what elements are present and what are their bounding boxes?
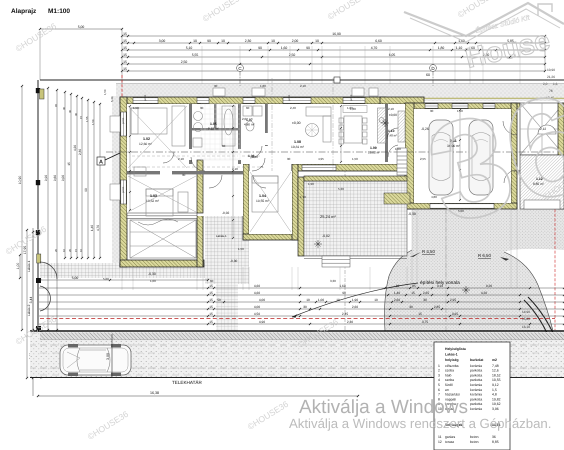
svg-text:85: 85 bbox=[412, 284, 416, 288]
axis markers bbox=[237, 65, 244, 72]
svg-text:parketta: parketta bbox=[470, 402, 482, 406]
svg-text:36: 36 bbox=[492, 435, 496, 439]
svg-text:1,00: 1,00 bbox=[395, 147, 401, 151]
svg-text:2,85: 2,85 bbox=[434, 305, 440, 309]
svg-text:2,10: 2,10 bbox=[388, 107, 394, 111]
extension lines below house bbox=[121, 267, 123, 290]
svg-text:9,12 m²: 9,12 m² bbox=[208, 127, 219, 131]
svg-text:90: 90 bbox=[306, 46, 310, 50]
svg-text:16,10: 16,10 bbox=[522, 325, 530, 329]
svg-text:1,10: 1,10 bbox=[252, 155, 258, 159]
svg-text:1.05: 1.05 bbox=[210, 122, 217, 126]
svg-text:2,45: 2,45 bbox=[342, 312, 348, 316]
svg-text:garázs: garázs bbox=[445, 435, 455, 439]
svg-text:4,60: 4,60 bbox=[254, 284, 260, 288]
svg-text:helyiség: helyiség bbox=[445, 358, 459, 362]
svg-text:20: 20 bbox=[54, 248, 58, 252]
svg-text:1,90: 1,90 bbox=[308, 182, 314, 186]
svg-text:1.08: 1.08 bbox=[294, 140, 301, 144]
sidewalk band to gate bbox=[40, 263, 249, 278]
svg-text:10,55 m²: 10,55 m² bbox=[256, 199, 270, 203]
svg-text:1,00: 1,00 bbox=[16, 263, 20, 270]
svg-text:90: 90 bbox=[200, 106, 204, 110]
svg-text:parketta: parketta bbox=[470, 378, 482, 382]
svg-text:1,5: 1,5 bbox=[492, 388, 497, 392]
svg-text:1,60: 1,60 bbox=[339, 284, 345, 288]
svg-text:20: 20 bbox=[68, 248, 72, 252]
svg-text:3: 3 bbox=[438, 373, 440, 377]
svg-text:15: 15 bbox=[418, 312, 422, 316]
svg-text:30: 30 bbox=[68, 109, 72, 113]
svg-text:5,10: 5,10 bbox=[186, 46, 193, 50]
svg-text:6,05: 6,05 bbox=[389, 53, 396, 57]
svg-text:5: 5 bbox=[438, 383, 440, 387]
svg-text:15: 15 bbox=[209, 320, 213, 324]
bathroom 1.05 tub bbox=[222, 106, 235, 146]
svg-text:15: 15 bbox=[209, 298, 213, 302]
svg-text:60: 60 bbox=[210, 279, 214, 283]
svg-text:4,90: 4,90 bbox=[259, 320, 265, 324]
terrace door band bbox=[302, 165, 336, 171]
windows bbox=[133, 98, 158, 103]
terrace 25.24 bbox=[298, 177, 304, 256]
svg-text:15: 15 bbox=[411, 291, 415, 295]
section line A-A bbox=[106, 151, 556, 153]
driveway curve R6.50 bbox=[504, 252, 553, 331]
svg-text:2,50: 2,50 bbox=[289, 53, 296, 57]
svg-text:11: 11 bbox=[438, 435, 442, 439]
svg-text:2,50: 2,50 bbox=[181, 60, 188, 64]
steps by garage wall bbox=[384, 193, 410, 204]
svg-text:1.04: 1.04 bbox=[259, 194, 266, 198]
svg-text:6: 6 bbox=[438, 388, 440, 392]
room 1.03 diagonals bbox=[128, 176, 196, 212]
svg-text:60: 60 bbox=[222, 144, 226, 148]
driveway heavy edge curve bbox=[524, 300, 552, 345]
entry steps bbox=[397, 148, 407, 175]
svg-text:fürdő: fürdő bbox=[445, 383, 453, 387]
extension lines to house bbox=[201, 46, 203, 84]
svg-text:10: 10 bbox=[193, 39, 197, 43]
svg-text:2,10: 2,10 bbox=[300, 84, 306, 88]
svg-text:18,52: 18,52 bbox=[492, 373, 501, 377]
svg-text:pm90: pm90 bbox=[350, 94, 353, 101]
svg-text:Aktiválja a Windows rendszert: Aktiválja a Windows rendszert a Gépházba… bbox=[289, 416, 551, 431]
svg-text:50: 50 bbox=[217, 298, 221, 302]
svg-text:Lakás-1: Lakás-1 bbox=[27, 260, 31, 272]
svg-text:1: 1 bbox=[438, 364, 440, 368]
terrace 1.12 bbox=[520, 155, 564, 209]
svg-text:10: 10 bbox=[62, 248, 66, 252]
bed room 1.02 bbox=[131, 108, 167, 134]
svg-text:25,24 m²: 25,24 m² bbox=[320, 214, 336, 219]
driveway curve R4.50 bbox=[385, 250, 413, 331]
svg-text:15: 15 bbox=[209, 291, 213, 295]
svg-text:1,80: 1,80 bbox=[347, 106, 353, 110]
interior walls bbox=[197, 160, 203, 213]
svg-text:4,80: 4,80 bbox=[431, 195, 437, 199]
svg-text:1,55: 1,55 bbox=[85, 116, 89, 122]
svg-text:1.02: 1.02 bbox=[143, 137, 150, 141]
svg-text:15: 15 bbox=[209, 305, 213, 309]
bottom dimension rows bbox=[39, 287, 564, 289]
kitchen top counter bbox=[343, 106, 367, 113]
svg-text:7,48: 7,48 bbox=[492, 364, 499, 368]
svg-text:3,30: 3,30 bbox=[330, 279, 336, 283]
svg-text:4,8: 4,8 bbox=[492, 393, 497, 397]
dim stack connectors bbox=[40, 29, 545, 84]
svg-text:2,10: 2,10 bbox=[178, 157, 184, 161]
svg-text:parketta: parketta bbox=[470, 397, 482, 401]
svg-text:9,00: 9,00 bbox=[61, 175, 65, 181]
svg-text:90: 90 bbox=[214, 84, 218, 88]
svg-text:15: 15 bbox=[67, 162, 71, 166]
svg-text:15: 15 bbox=[209, 284, 213, 288]
svg-text:3,44: 3,44 bbox=[29, 297, 33, 304]
walkway grid strip to street bbox=[205, 209, 249, 284]
svg-text:4,20: 4,20 bbox=[481, 291, 487, 295]
svg-text:1,10: 1,10 bbox=[456, 46, 463, 50]
svg-text:2,30: 2,30 bbox=[347, 320, 353, 324]
svg-text:1,40: 1,40 bbox=[90, 225, 94, 231]
svg-text:Lakás-1: Lakás-1 bbox=[445, 353, 458, 357]
room 1.02 diagonals bbox=[128, 106, 187, 168]
svg-text:19,62: 19,62 bbox=[492, 402, 501, 406]
svg-text:10: 10 bbox=[221, 39, 225, 43]
svg-text:5,00: 5,00 bbox=[78, 25, 85, 29]
svg-text:90: 90 bbox=[207, 39, 211, 43]
svg-text:3,96: 3,96 bbox=[492, 407, 499, 411]
svg-text:2,60: 2,60 bbox=[394, 298, 400, 302]
svg-text:5,00: 5,00 bbox=[72, 276, 79, 280]
svg-text:10: 10 bbox=[79, 248, 83, 252]
kitchen 1.09 bbox=[378, 108, 386, 143]
svg-text:kerámia: kerámia bbox=[470, 383, 482, 387]
svg-text:±0,00: ±0,00 bbox=[292, 121, 301, 125]
svg-text:pm90: pm90 bbox=[288, 94, 291, 101]
svg-text:1,40: 1,40 bbox=[394, 291, 400, 295]
svg-text:3,00: 3,00 bbox=[159, 39, 166, 43]
svg-text:3,65: 3,65 bbox=[452, 312, 458, 316]
svg-text:pm90: pm90 bbox=[144, 94, 147, 101]
svg-text:7: 7 bbox=[438, 393, 440, 397]
svg-text:1,80: 1,80 bbox=[438, 46, 445, 50]
svg-text:kerámia: kerámia bbox=[470, 407, 482, 411]
svg-text:Aktiválja a Windows: Aktiválja a Windows bbox=[299, 397, 468, 418]
room list table bbox=[434, 342, 510, 450]
svg-text:Lakás-1: Lakás-1 bbox=[216, 234, 227, 238]
svg-text:19,82: 19,82 bbox=[492, 397, 501, 401]
svg-text:előszoba: előszoba bbox=[445, 364, 459, 368]
terrace steps bbox=[322, 256, 350, 267]
svg-text:4,00: 4,00 bbox=[254, 305, 260, 309]
svg-text:30: 30 bbox=[303, 305, 307, 309]
svg-text:8,85: 8,85 bbox=[492, 440, 499, 444]
svg-text:14,90: 14,90 bbox=[522, 310, 530, 314]
svg-text:15: 15 bbox=[123, 32, 127, 36]
svg-text:3,00: 3,00 bbox=[106, 353, 110, 360]
svg-text:Alaprajz: Alaprajz bbox=[11, 8, 37, 15]
svg-text:90: 90 bbox=[342, 291, 346, 295]
svg-text:30: 30 bbox=[74, 112, 78, 116]
svg-text:háztartási: háztartási bbox=[445, 393, 460, 397]
svg-text:18,52 m²: 18,52 m² bbox=[146, 199, 160, 203]
section marker A bbox=[97, 157, 105, 165]
svg-text:beton: beton bbox=[470, 435, 479, 439]
nappali sofa bbox=[306, 107, 331, 116]
svg-text:4,60: 4,60 bbox=[254, 291, 260, 295]
room 1.04 bed bbox=[252, 176, 278, 212]
svg-text:2,65: 2,65 bbox=[423, 291, 429, 295]
svg-text:15: 15 bbox=[74, 248, 78, 252]
svg-text:1,70: 1,70 bbox=[300, 195, 306, 199]
svg-text:19,81 m²: 19,81 m² bbox=[291, 145, 305, 149]
svg-text:A: A bbox=[99, 160, 103, 166]
svg-text:60: 60 bbox=[426, 73, 430, 77]
svg-text:2,30: 2,30 bbox=[78, 149, 82, 155]
svg-text:4,00: 4,00 bbox=[259, 298, 265, 302]
svg-text:szoba: szoba bbox=[445, 369, 454, 373]
svg-text:4,80 m²: 4,80 m² bbox=[244, 123, 255, 127]
svg-text:75: 75 bbox=[260, 165, 264, 169]
dining table bbox=[344, 116, 362, 143]
svg-text:90: 90 bbox=[287, 157, 291, 161]
house outer walls bbox=[120, 97, 386, 104]
svg-text:3,75: 3,75 bbox=[422, 320, 428, 324]
wall top insulation line bbox=[120, 97, 564, 99]
svg-text:10: 10 bbox=[306, 298, 310, 302]
room 1.03 wardrobe bbox=[134, 167, 146, 176]
svg-text:15: 15 bbox=[123, 67, 127, 71]
lot left boundary bbox=[37, 80, 39, 378]
yard gravel band around house bbox=[116, 83, 564, 101]
svg-text:4,20: 4,20 bbox=[73, 145, 77, 151]
left vertical dimension lines bbox=[47, 88, 49, 330]
svg-text:1,50: 1,50 bbox=[352, 157, 358, 161]
car 2 bbox=[469, 120, 493, 195]
pergola right wall strip bbox=[558, 103, 564, 209]
right pergola bbox=[520, 103, 564, 155]
street lane dashes bbox=[40, 345, 560, 375]
svg-text:4: 4 bbox=[438, 378, 440, 382]
svg-text:9,90: 9,90 bbox=[44, 175, 48, 181]
svg-text:1,90: 1,90 bbox=[352, 298, 358, 302]
svg-text:1.09: 1.09 bbox=[370, 146, 377, 150]
svg-text:2,60: 2,60 bbox=[352, 305, 358, 309]
svg-text:15: 15 bbox=[209, 312, 213, 316]
svg-text:R 4,50: R 4,50 bbox=[422, 249, 435, 254]
svg-text:15: 15 bbox=[123, 53, 127, 57]
svg-text:1,00: 1,00 bbox=[150, 279, 156, 283]
axis dashline in driveway bbox=[445, 209, 447, 331]
svg-text:30: 30 bbox=[423, 298, 427, 302]
svg-text:-0,02: -0,02 bbox=[222, 211, 229, 215]
svg-text:terasz: terasz bbox=[445, 440, 455, 444]
door gaps bbox=[160, 171, 172, 175]
svg-text:1,50: 1,50 bbox=[103, 89, 107, 95]
svg-text:2,30: 2,30 bbox=[245, 39, 252, 43]
svg-text:10,90: 10,90 bbox=[18, 176, 22, 185]
svg-text:5,00: 5,00 bbox=[103, 277, 109, 281]
fence posts bbox=[36, 88, 40, 93]
entrance 1.10 bbox=[398, 111, 405, 142]
svg-text:±0,00: ±0,00 bbox=[389, 113, 397, 117]
car 1 bbox=[429, 120, 453, 195]
svg-text:6,60: 6,60 bbox=[375, 39, 382, 43]
lot top boundary bbox=[40, 79, 564, 81]
svg-text:2: 2 bbox=[438, 369, 440, 373]
street band bbox=[30, 332, 564, 377]
bottom dim 16.38 bbox=[38, 395, 358, 397]
svg-text:90: 90 bbox=[182, 173, 186, 177]
red building envelope line bbox=[121, 75, 123, 97]
gate arcs bbox=[40, 262, 57, 279]
svg-text:10: 10 bbox=[374, 298, 378, 302]
svg-text:15: 15 bbox=[123, 39, 127, 43]
svg-text:4,50: 4,50 bbox=[254, 312, 260, 316]
svg-text:4,70: 4,70 bbox=[371, 46, 378, 50]
svg-text:építési hely vonala: építési hely vonala bbox=[420, 280, 460, 286]
svg-text:16,90: 16,90 bbox=[332, 32, 341, 36]
svg-text:TELEKHATÁR: TELEKHATÁR bbox=[172, 380, 202, 385]
svg-text:2,95: 2,95 bbox=[450, 298, 456, 302]
svg-text:4,70: 4,70 bbox=[96, 225, 100, 231]
svg-text:kerámia: kerámia bbox=[470, 364, 482, 368]
room 1.07 fixtures bbox=[243, 106, 252, 116]
svg-text:háló: háló bbox=[445, 373, 452, 377]
door arcs bbox=[191, 157, 205, 171]
svg-text:4,95: 4,95 bbox=[318, 157, 324, 161]
svg-text:parketta: parketta bbox=[470, 369, 482, 373]
svg-text:19,62 m²: 19,62 m² bbox=[368, 151, 380, 155]
svg-text:7,48 m²: 7,48 m² bbox=[387, 134, 397, 138]
svg-text:9,12: 9,12 bbox=[492, 383, 499, 387]
bathroom tiles bbox=[201, 104, 240, 160]
svg-text:10: 10 bbox=[271, 39, 275, 43]
band window boxes bbox=[213, 88, 225, 96]
svg-text:15: 15 bbox=[123, 46, 127, 50]
house interior bbox=[127, 104, 405, 164]
svg-text:2,55: 2,55 bbox=[420, 157, 426, 161]
svg-text:12: 12 bbox=[438, 440, 442, 444]
svg-text:5,55: 5,55 bbox=[192, 53, 199, 57]
svg-text:-0,02: -0,02 bbox=[322, 234, 330, 238]
svg-text:15: 15 bbox=[123, 60, 127, 64]
svg-text:m2: m2 bbox=[492, 358, 497, 362]
svg-text:10: 10 bbox=[315, 39, 319, 43]
svg-text:2,07: 2,07 bbox=[242, 117, 248, 121]
svg-text:1,50: 1,50 bbox=[238, 247, 244, 251]
svg-text:pm90: pm90 bbox=[122, 117, 125, 124]
svg-text:R 6,50: R 6,50 bbox=[478, 253, 491, 258]
axis lines bbox=[272, 78, 333, 171]
svg-text:12,6: 12,6 bbox=[492, 369, 499, 373]
top dimension rows bbox=[40, 28, 122, 30]
svg-text:1,60: 1,60 bbox=[281, 46, 288, 50]
svg-text:1,00: 1,00 bbox=[318, 298, 324, 302]
svg-text:30: 30 bbox=[62, 106, 66, 110]
svg-text:-0,30: -0,30 bbox=[148, 272, 156, 276]
svg-text:16,38: 16,38 bbox=[150, 391, 159, 395]
svg-text:Lakás-2: Lakás-2 bbox=[27, 304, 31, 316]
svg-text:parketta: parketta bbox=[470, 373, 482, 377]
svg-text:1,80: 1,80 bbox=[260, 84, 266, 88]
svg-text:9,20: 9,20 bbox=[486, 284, 492, 288]
svg-text:30: 30 bbox=[409, 305, 413, 309]
marker crosses bbox=[314, 240, 322, 248]
svg-text:15: 15 bbox=[79, 115, 83, 119]
svg-text:wc: wc bbox=[445, 388, 449, 392]
driveway gray area bbox=[385, 209, 564, 331]
watermark logo HOUSE36 bbox=[404, 3, 564, 254]
svg-text:M1:100: M1:100 bbox=[48, 8, 70, 15]
svg-text:-0,30: -0,30 bbox=[230, 259, 237, 263]
svg-text:15,80: 15,80 bbox=[522, 317, 530, 321]
svg-text:90: 90 bbox=[258, 46, 262, 50]
terrace Lakas-1 deck bbox=[130, 220, 196, 258]
room 1.03 bed bbox=[146, 189, 173, 216]
svg-text:60: 60 bbox=[246, 106, 250, 110]
interior dim chains bbox=[232, 106, 234, 238]
svg-text:kerámia: kerámia bbox=[470, 393, 482, 397]
svg-text:5,30: 5,30 bbox=[110, 96, 114, 102]
svg-text:90: 90 bbox=[84, 188, 88, 192]
svg-text:1,50: 1,50 bbox=[133, 106, 139, 110]
svg-text:beton: beton bbox=[470, 440, 479, 444]
svg-text:9,60: 9,60 bbox=[53, 175, 57, 181]
svg-text:2,40: 2,40 bbox=[290, 106, 296, 110]
svg-text:pm90: pm90 bbox=[122, 186, 125, 193]
svg-text:szoba: szoba bbox=[445, 378, 454, 382]
svg-text:Helyiséglista: Helyiséglista bbox=[445, 347, 466, 351]
svg-text:2,00: 2,00 bbox=[292, 39, 299, 43]
svg-text:burkolat: burkolat bbox=[470, 358, 484, 362]
svg-text:65: 65 bbox=[54, 103, 58, 107]
svg-text:10,55: 10,55 bbox=[492, 378, 501, 382]
street car bbox=[60, 344, 131, 376]
svg-text:1.10: 1.10 bbox=[388, 129, 395, 133]
svg-text:1,50: 1,50 bbox=[91, 119, 95, 125]
svg-text:5,30: 5,30 bbox=[338, 187, 344, 191]
svg-text:kerámia: kerámia bbox=[470, 388, 482, 392]
